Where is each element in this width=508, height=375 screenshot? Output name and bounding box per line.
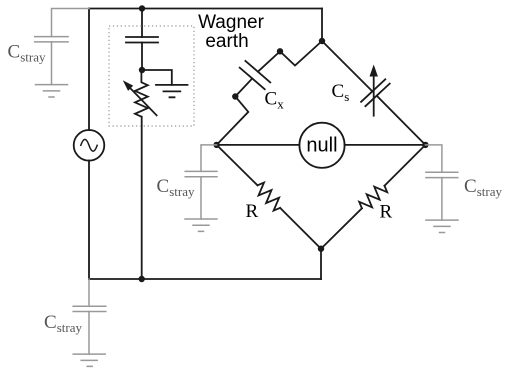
node: Cx upper [277,48,283,54]
wire bottom horizontal [89,278,321,280]
capacitor C1 (Wagner earth cap) [126,37,158,43]
wire Wagner cap to junction [141,43,143,71]
wire Cx to node B [235,79,252,97]
ground (Wagner earth) [156,85,188,97]
capacitor Cstray right [426,172,458,177]
svg-text:R: R [246,201,259,222]
wire bottom node stem [320,249,322,279]
dotted enclosure (Wagner earth box) [109,26,194,126]
capacitor Cstray bottom [73,306,106,311]
upper-right arm wire (top node to Cs) [322,41,372,91]
node: bottom wire / Wagner branch [139,276,145,282]
Cs arrow shaft [373,74,375,116]
Cs arrowhead [370,65,378,77]
wire node B to left node [217,97,249,145]
resistor R2 (right) [359,186,387,209]
wire Wagner junction to ground [142,70,172,85]
resistor R3 (Wagner rheostat) [135,70,148,117]
upper-left arm wire (top node to Cx) [258,41,322,72]
svg-text:Cstray: Cstray [8,42,46,65]
ground (right stray) [426,220,458,232]
capacitor Cstray left-mid [185,171,217,176]
wire left rail lower [88,161,90,280]
svg-text:Cstray: Cstray [157,176,195,199]
wire left rail upper [88,9,90,131]
stray capacitance branch top-left: wires [52,9,90,85]
ground (bottom stray) [73,354,105,366]
rheostat arrowhead [123,80,133,91]
wire top horizontal [89,8,322,10]
lower-left arm wire [217,145,258,185]
node: Wagner junction [139,67,145,73]
node: bridge right [422,142,428,148]
capacitor Cstray top-left [35,37,68,42]
ground (left-mid stray) [185,219,217,231]
svg-text:earth: earth [205,31,248,52]
node: top wire / Wagner branch [139,5,145,11]
svg-text:Cx: Cx [265,89,285,112]
node: bridge left [213,142,219,148]
svg-text:R: R [380,202,393,223]
wire right R to bottom node [321,208,362,248]
lower-right arm wire [385,145,426,186]
svg-text:Cstray: Cstray [464,176,502,199]
node: bridge top [319,38,325,44]
stray branch bottom: wires [88,279,90,354]
svg-text:null: null [306,135,337,157]
wire left R to bottom node [280,208,321,249]
wire null to right node [345,144,426,146]
svg-text:Wagner: Wagner [198,12,264,33]
resistor R1 (left) [258,183,281,211]
rheostat arrow [130,87,157,115]
ground (top-left stray) [36,85,68,97]
source V1 (AC) [74,130,105,161]
capacitor Cs plates [361,79,390,106]
node: bridge bottom [318,246,324,252]
svg-text:Cstray: Cstray [44,312,82,335]
stray branch left-mid: wires [201,145,217,219]
svg-text:Cs: Cs [332,81,350,104]
wire left node to null [217,144,300,146]
node: Cx lower [232,93,238,99]
wire Cs to right node [377,96,426,145]
stray branch right: wires [425,145,442,220]
wire top node stem [321,9,323,42]
wire Wagner branch lower [141,117,143,279]
capacitor Cx plates [240,61,271,89]
meter null detector [299,123,344,168]
wire Wagner branch upper [141,9,143,38]
